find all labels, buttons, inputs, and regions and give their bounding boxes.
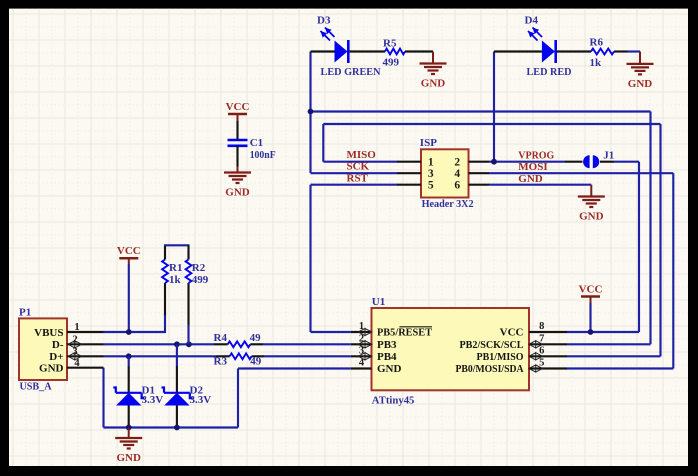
wire LED green row (black pin segments) <box>311 50 335 52</box>
svg-text:J1: J1 <box>603 150 614 162</box>
svg-text:PB0/MOSI/SDA: PB0/MOSI/SDA <box>456 363 524 375</box>
U1 pin 6 stub <box>529 355 567 357</box>
svg-text:PB4: PB4 <box>377 351 397 363</box>
ISP pin 4 stub <box>469 172 490 174</box>
wire header GND net <box>489 184 591 186</box>
svg-text:GND: GND <box>377 363 402 375</box>
wire VPROG net: vertical down to U1 pin8 row <box>638 162 640 332</box>
wire D1 anode to GND bus <box>128 406 130 428</box>
svg-text:GND: GND <box>518 173 543 185</box>
svg-text:8: 8 <box>539 321 544 332</box>
svg-text:VCC: VCC <box>579 284 603 296</box>
wire MISO net: header pin1 row <box>323 161 397 163</box>
resistor R3 <box>230 353 252 359</box>
wire VPROG net: header pin2 to J1 <box>489 161 565 163</box>
wire R1-R2 top bar <box>164 244 190 246</box>
wire C1 to GND <box>236 146 238 167</box>
svg-text:RST: RST <box>347 173 369 185</box>
wire LED red vertical down to VPROG <box>493 52 495 162</box>
USB pin 3 direction arrows <box>68 353 82 360</box>
IC U1 ATtiny45 <box>372 308 530 390</box>
U1 pin 1 direction arrows <box>358 328 372 335</box>
USB pin 1 stub <box>67 331 104 333</box>
U1 pin 6 direction arrows <box>529 353 543 360</box>
resistor R6 <box>591 49 614 55</box>
U1 pin 7 stub <box>529 343 567 345</box>
diode D1 zener <box>116 393 141 406</box>
wire R1 leg top <box>164 245 166 259</box>
wire VCC to C1 <box>237 114 239 121</box>
junction VPROG / LED red <box>491 159 497 165</box>
svg-text:D4: D4 <box>525 15 539 27</box>
U1 pin 8 stub <box>529 331 567 333</box>
wire R2 leg top <box>187 245 189 259</box>
svg-text:VCC: VCC <box>226 101 250 113</box>
junction GND bus / D2 <box>174 425 180 431</box>
junction SCK branch <box>308 109 314 115</box>
wire D2 anode to GND bus <box>176 406 178 428</box>
svg-text:GND: GND <box>421 78 446 90</box>
svg-text:MOSI: MOSI <box>518 161 547 173</box>
svg-text:USB_A: USB_A <box>20 381 52 393</box>
U1 pin 5 stub <box>529 367 567 369</box>
wire VCC right stub <box>589 303 591 332</box>
wire MISO net: vertical right down to U1 pin6 <box>659 124 661 356</box>
USB pin 3 stub <box>67 355 104 357</box>
wire VPROG net: J1 to right corner <box>614 161 639 163</box>
svg-text:C1: C1 <box>250 137 263 149</box>
wire D- net: R4 to U1 pin2 <box>263 343 351 345</box>
svg-text:4: 4 <box>454 168 460 180</box>
svg-text:VPROG: VPROG <box>518 149 554 161</box>
U1 pin 5 direction arrows <box>529 365 543 372</box>
wire MISO net: horizontal y=124 <box>323 123 660 125</box>
svg-text:U1: U1 <box>372 296 385 308</box>
U1 pin 4 stub <box>351 367 372 369</box>
power VCC for C1 <box>228 113 247 116</box>
svg-text:D-: D- <box>52 339 64 351</box>
wire LED red row (black pin segments) <box>494 50 542 52</box>
svg-text:GND: GND <box>225 187 250 199</box>
svg-text:PB5/RESET: PB5/RESET <box>377 327 433 339</box>
svg-text:VCC: VCC <box>500 327 524 339</box>
svg-text:LED RED: LED RED <box>527 66 572 78</box>
wire GND bus bottom <box>104 426 239 428</box>
wire D2 branch <box>176 344 178 366</box>
USB pin 2 direction arrows <box>68 341 82 348</box>
ISP pin 2 stub <box>469 161 490 163</box>
ISP pin 5 stub <box>397 184 421 186</box>
capacitor C1 <box>228 139 248 142</box>
wire R3 black pins <box>216 355 230 357</box>
connector ISP Header 3X2 <box>421 149 469 197</box>
svg-text:499: 499 <box>383 57 400 69</box>
svg-text:VBUS: VBUS <box>34 327 63 339</box>
ground main <box>128 428 130 439</box>
U1 pin 2 direction arrows <box>358 341 372 348</box>
wire RST net: into U1 pin1 <box>311 331 351 333</box>
wire USB GND down <box>102 368 104 428</box>
USB pin 4 stub <box>67 367 104 369</box>
jumper J1 <box>583 155 589 168</box>
connector P1 USB_A <box>19 318 67 380</box>
power VCC left <box>119 257 138 260</box>
USB pin 2 stub <box>67 343 104 345</box>
ground for header pin6 <box>590 185 592 197</box>
ground for R6 <box>639 52 641 64</box>
junction GND bus / D1 / GND symbol <box>126 425 132 431</box>
U1 pin 1 stub <box>351 331 372 333</box>
ground for C1 <box>224 171 251 173</box>
svg-text:R2: R2 <box>192 262 206 274</box>
junction VCC / U1 pin8 <box>588 329 594 335</box>
LED D3 emission arrows <box>325 28 335 38</box>
U1 pin 2 stub <box>351 343 372 345</box>
wire R1 leg bottom <box>164 283 166 316</box>
wire SCK net: U1 pin7 row <box>567 343 651 345</box>
wire D1 branch <box>128 356 130 366</box>
svg-text:6: 6 <box>454 180 460 192</box>
junction R2 on D- <box>186 341 192 347</box>
power VCC right (U1) <box>581 295 600 298</box>
svg-text:2: 2 <box>454 157 460 169</box>
svg-text:1: 1 <box>428 157 434 169</box>
U1 pin 7 direction arrows <box>529 341 543 348</box>
wire LED red to GND corner <box>628 50 641 52</box>
wire RST net: vertical down to U1 pin1 row <box>309 185 311 332</box>
resistor R1 <box>162 260 168 283</box>
svg-text:GND: GND <box>628 78 653 90</box>
junction D1 on D+ <box>126 353 132 359</box>
svg-text:SCK: SCK <box>347 160 370 172</box>
wire U1 GND branch <box>238 367 351 369</box>
svg-text:PB3: PB3 <box>377 339 397 351</box>
junction VCC / VBUS <box>126 329 132 335</box>
wire SCK net: horizontal branch y=111.5 <box>311 110 651 112</box>
wire MISO net: vertical up <box>322 124 324 162</box>
LED D3 <box>335 41 348 63</box>
wire SCK net: LED green corner down to SCK row <box>309 52 311 174</box>
svg-text:LED GREEN: LED GREEN <box>321 66 381 78</box>
svg-text:P1: P1 <box>19 307 31 319</box>
svg-text:1k: 1k <box>169 274 182 286</box>
svg-text:3.3V: 3.3V <box>190 394 212 406</box>
resistor R4 <box>228 341 251 347</box>
svg-text:1: 1 <box>74 322 79 333</box>
svg-text:GND: GND <box>579 211 604 223</box>
wire VCC stub left <box>128 264 130 332</box>
ISP pin 6 stub <box>469 184 490 186</box>
U1 pin 3 direction arrows <box>358 353 372 360</box>
svg-text:GND: GND <box>39 363 64 375</box>
svg-text:1k: 1k <box>590 57 603 69</box>
svg-text:5: 5 <box>428 180 434 192</box>
wire MISO net: U1 pin6 row <box>567 355 661 357</box>
wire R2 leg bottom <box>187 283 189 325</box>
wire D+ net: R3 to U1 pin3 <box>264 355 351 357</box>
svg-text:49: 49 <box>250 355 261 367</box>
wire VCC net: U1 pin8 row <box>567 331 639 333</box>
svg-text:499: 499 <box>192 274 209 286</box>
wire D- net: USB pin2 row to R4 <box>104 343 215 345</box>
jumper J1 pins <box>565 161 583 163</box>
LED D4 emission arrows <box>533 28 543 38</box>
svg-text:R4: R4 <box>214 332 228 344</box>
wire MOSI net: vertical down to U1 pin5 <box>672 173 674 368</box>
wire MOSI net: header pin4 row <box>489 172 673 174</box>
resistor R2 <box>186 260 192 283</box>
svg-text:PB1/MISO: PB1/MISO <box>477 351 524 363</box>
svg-text:49: 49 <box>250 332 262 344</box>
svg-text:100nF: 100nF <box>250 149 276 161</box>
U1 pin 3 stub <box>351 355 372 357</box>
wire R4 black pins <box>214 343 228 345</box>
svg-text:Header 3X2: Header 3X2 <box>422 198 474 210</box>
svg-text:VCC: VCC <box>117 245 141 257</box>
resistor R5 <box>385 49 405 55</box>
svg-text:ISP: ISP <box>420 137 437 149</box>
svg-text:MISO: MISO <box>347 149 377 161</box>
diode D2 zener <box>164 393 189 406</box>
junction D2 on D- <box>174 341 180 347</box>
wire D+ net: USB pin3 row to R3 <box>104 355 217 357</box>
svg-text:R3: R3 <box>214 355 228 367</box>
ISP pin 3 stub <box>397 172 421 174</box>
ground for R5 <box>432 52 434 64</box>
svg-text:R5: R5 <box>383 38 397 50</box>
wire VBUS/VCC net: USB pin1 row <box>104 331 166 333</box>
ISP pin 1 stub <box>397 161 421 163</box>
svg-text:R1: R1 <box>169 262 182 274</box>
svg-text:3: 3 <box>428 168 434 180</box>
wire MOSI net: U1 pin5 row <box>567 367 673 369</box>
svg-text:D3: D3 <box>317 15 331 27</box>
wire SCK net: vertical right side down to U1 pin7 <box>649 112 651 345</box>
svg-text:PB2/SCK/SCL: PB2/SCK/SCL <box>460 339 524 351</box>
svg-text:3.3V: 3.3V <box>142 394 164 406</box>
svg-text:ATtiny45: ATtiny45 <box>372 395 415 407</box>
svg-text:R6: R6 <box>590 37 604 49</box>
wire RST net: header pin5 row <box>311 184 398 186</box>
wire SCK net: row into header pin 3 <box>311 172 398 174</box>
LED D4 <box>542 41 555 63</box>
svg-text:D+: D+ <box>49 351 63 363</box>
svg-text:GND: GND <box>116 452 141 464</box>
